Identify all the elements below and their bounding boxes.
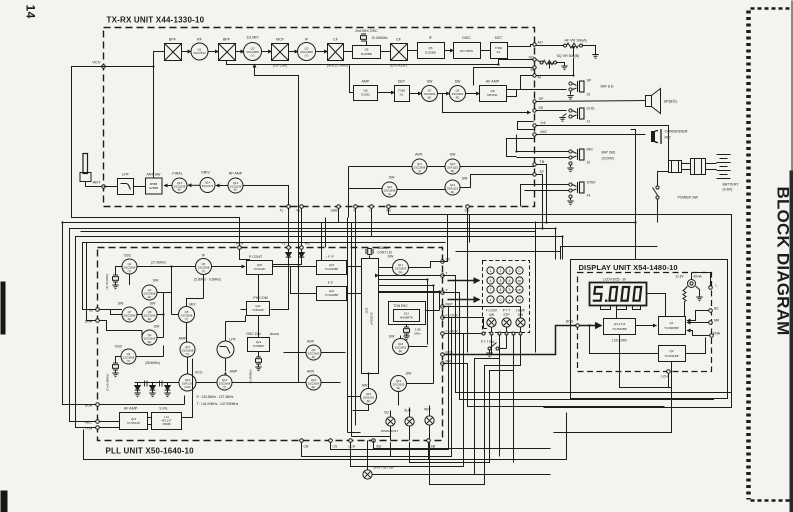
block TON ENC D12 <box>389 302 426 325</box>
svg-text:2SC1971: 2SC1971 <box>202 184 214 188</box>
svg-text:7: 7 <box>490 288 492 292</box>
svg-text:CS: CS <box>333 445 338 449</box>
svg-text:(Y): (Y) <box>223 385 227 389</box>
wire <box>466 93 480 95</box>
svg-text:R : 130.3MHz - 137.3MHz: R : 130.3MHz - 137.3MHz <box>197 395 234 399</box>
jack J3 SP <box>567 79 614 100</box>
svg-text:Q1: Q1 <box>669 321 673 325</box>
wire <box>408 50 418 52</box>
svg-text:SW: SW <box>450 153 456 157</box>
wire <box>481 50 491 52</box>
wire ST right riser <box>536 175 542 229</box>
node LCH disp <box>661 370 670 379</box>
svg-text:9: 9 <box>509 288 511 292</box>
keypad bottom node row <box>482 332 522 335</box>
wire riser x562 <box>562 237 564 260</box>
transistor Q1 OSC <box>122 254 137 275</box>
wire bus extra <box>81 231 536 233</box>
wire SC riser <box>442 215 448 262</box>
wire <box>438 93 450 95</box>
right page edge dark border <box>790 171 793 512</box>
svg-text:8: 8 <box>500 288 502 292</box>
node SB TX-RX bottom <box>466 205 470 209</box>
svg-text:TC9122P: TC9122P <box>254 267 266 271</box>
svg-text:MX58BTN: MX58BTN <box>400 316 413 320</box>
wire LSI buses vertical <box>348 218 391 437</box>
transistor Q2 SW <box>142 279 159 301</box>
wire bus DNA left <box>87 243 96 321</box>
svg-text:F LOCK: F LOCK <box>446 314 459 318</box>
transistor Q11 AVR (mid) <box>412 153 427 175</box>
wire ST row <box>349 175 535 190</box>
block ANT SW <box>146 173 163 195</box>
svg-text:SW: SW <box>118 302 124 306</box>
svg-text:SW: SW <box>150 302 156 306</box>
svg-text:(E): (E) <box>456 95 460 99</box>
wire Q2/LCH bottom <box>554 335 672 433</box>
svg-text:G25BB: G25BB <box>149 186 158 190</box>
svg-text:AO: AO <box>538 41 543 45</box>
svg-text:BU: BU <box>377 445 382 449</box>
svg-text:10.240MHz: 10.240MHz <box>249 369 253 384</box>
wire 9.6 U-loop <box>518 122 534 130</box>
svg-text:J3: J3 <box>587 93 591 97</box>
LCD connector pads <box>601 306 641 319</box>
svg-text:TC4013BP: TC4013BP <box>325 293 339 297</box>
transistor Q17 SW <box>388 255 409 276</box>
node AI <box>533 58 574 80</box>
svg-text:(K): (K) <box>234 188 238 192</box>
crystal X1 <box>105 267 122 290</box>
svg-text:OSC: OSC <box>115 345 123 349</box>
svg-text:SW: SW <box>489 313 494 317</box>
svg-text:STP: STP <box>503 313 509 317</box>
wire riser x635 from mic area <box>631 130 636 260</box>
switch LAMP SW <box>516 309 525 328</box>
svg-text:BC: BC <box>387 209 392 213</box>
svg-text:(E): (E) <box>148 295 152 299</box>
node SP <box>533 97 544 103</box>
wire <box>262 51 272 53</box>
svg-text:[5MHz]: [5MHz] <box>270 332 280 336</box>
svg-text:(38.5MHz): (38.5MHz) <box>145 361 160 365</box>
svg-text:STBY: STBY <box>587 181 597 185</box>
svg-text:TC4011BP: TC4011BP <box>664 354 678 358</box>
wire short risers into PLL top <box>322 218 326 261</box>
filter BPF1 <box>165 38 182 61</box>
transistor Q6 IF <box>194 254 221 282</box>
filter MCF <box>272 38 289 68</box>
varactor diodes <box>134 383 140 397</box>
svg-text:SQ: SQ <box>384 411 389 415</box>
transistor Q13 RF AMP <box>228 172 243 194</box>
wire TB right riser <box>536 165 546 223</box>
wire MIC U-loop <box>507 139 534 157</box>
wires mix/if/vco column <box>137 267 299 383</box>
svg-text:TC4013BP: TC4013BP <box>325 267 339 271</box>
wire <box>381 51 391 53</box>
svg-text:CB: CB <box>304 445 309 449</box>
svg-text:TA7061AP: TA7061AP <box>127 421 140 425</box>
transistor Q2 1st MIX <box>244 36 262 61</box>
lamp SQ <box>381 411 399 434</box>
svg-text:AMP: AMP <box>230 370 238 374</box>
node BCD disp <box>566 320 579 328</box>
block DET <box>491 36 508 59</box>
node BC <box>709 307 720 313</box>
PTT SW <box>481 335 507 357</box>
wires Q1 to nodes <box>687 311 709 321</box>
transistor Q9 SW <box>450 80 466 102</box>
wire node drops TX-RX bottom <box>339 208 468 242</box>
staircase wires PLL to display bottom (right-wrap set) <box>443 276 732 393</box>
transistor Q11 AMP <box>179 337 195 358</box>
jack J4 STBY <box>567 181 596 205</box>
wire TB row <box>349 166 535 168</box>
filter CF2 <box>390 38 408 68</box>
wire STBY stubs <box>521 185 569 207</box>
wire RF AMP drive input from TL <box>243 186 289 205</box>
svg-text:SW: SW <box>362 384 368 388</box>
svg-text:(Y): (Y) <box>202 269 206 273</box>
svg-text:BPF: BPF <box>169 38 177 42</box>
wire bottom edge drops <box>351 442 429 459</box>
transistor Q19 SW <box>391 372 412 392</box>
svg-text:(GR): (GR) <box>184 385 190 389</box>
svg-text:(E): (E) <box>428 95 432 99</box>
svg-text:P T T: P T T <box>503 309 511 313</box>
svg-text:(9.6V): (9.6V) <box>723 188 733 192</box>
svg-text:SP: SP <box>587 79 592 83</box>
svg-text:J4: J4 <box>587 194 591 198</box>
block DET 2 <box>395 80 410 102</box>
svg-text:(E): (E) <box>367 399 371 403</box>
svg-text:DET: DET <box>495 36 503 40</box>
PLL right edge nodes <box>446 258 459 364</box>
svg-text:SW: SW <box>462 177 468 181</box>
wire RX feed down to ANT SW <box>153 67 155 179</box>
node TB <box>533 160 545 166</box>
svg-text:TC4543BP: TC4543BP <box>612 327 627 331</box>
wire top wrap around display <box>389 215 732 408</box>
wire <box>236 51 245 53</box>
wire mix injection riser from VCO <box>255 64 299 383</box>
svg-text:L: L <box>716 284 718 288</box>
wire AF AMP out to AI node <box>507 76 535 90</box>
svg-text:12.6V: 12.6V <box>675 275 684 279</box>
svg-text:SC: SC <box>446 258 451 262</box>
svg-text:REP: REP <box>446 303 454 307</box>
wire bus drop x535 <box>535 222 537 353</box>
svg-text:F LOCK: F LOCK <box>486 309 498 313</box>
crystal 3.58MHz <box>403 325 421 340</box>
wire keypad riser top <box>469 215 471 243</box>
wire <box>182 51 192 53</box>
svg-text:30mA: 30mA <box>693 275 702 279</box>
svg-text:(E): (E) <box>128 317 132 321</box>
svg-text:(T) 46.98MHz: (T) 46.98MHz <box>106 373 110 391</box>
svg-text:SW: SW <box>406 372 412 376</box>
svg-text:BCD: BCD <box>566 320 574 324</box>
svg-text:LPF: LPF <box>229 338 236 342</box>
wire AGC line to AMP <box>227 59 499 93</box>
filter LPF circle <box>217 338 237 359</box>
wires LSI to right edge <box>379 275 441 277</box>
wire varactor line <box>135 382 180 384</box>
left page-edge black mark upper <box>1 282 6 335</box>
2nd MIX OSC block D6 <box>353 29 389 59</box>
node SO <box>529 56 537 62</box>
battery connector plates <box>669 159 706 175</box>
svg-text:D115BE: D115BE <box>361 52 372 56</box>
svg-text:CONDENSER: CONDENSER <box>665 130 688 134</box>
wire VCV into P CONT <box>240 249 250 260</box>
node TON PLL left <box>85 426 120 431</box>
svg-text:AF AMP: AF AMP <box>124 407 138 411</box>
svg-text:DISPLAY UNIT X54-1480-10: DISPLAY UNIT X54-1480-10 <box>579 263 678 272</box>
battery 9.6V <box>706 155 740 192</box>
svg-text:(E): (E) <box>397 386 401 390</box>
wire MIC to condenser mic <box>537 134 646 136</box>
transistor Q3 IF <box>298 38 316 61</box>
svg-text:DNA: DNA <box>713 332 721 336</box>
svg-text:M5152L: M5152L <box>487 93 498 97</box>
svg-text:Q5: Q5 <box>428 46 432 50</box>
svg-text:⋆ F F: ⋆ F F <box>325 255 334 259</box>
wire VCV feed to BPF1 <box>104 52 165 67</box>
svg-text:ST: ST <box>540 170 545 174</box>
wire TB row drop <box>348 167 350 218</box>
svg-text:OSC DIV: OSC DIV <box>246 332 261 336</box>
crystal 10.240MHz <box>249 352 262 384</box>
node TL on PLL top <box>281 241 290 250</box>
wire DET to AO node <box>508 45 535 47</box>
transistor Q8 SW <box>142 302 157 323</box>
svg-text:NO: NO <box>518 280 522 283</box>
transistor AVR Q26 <box>306 370 321 391</box>
node SUB PLL left <box>85 396 185 408</box>
svg-text:AMP: AMP <box>362 80 370 84</box>
svg-text:OPEN/BUSY: OPEN/BUSY <box>381 429 399 433</box>
svg-text:DFY455S: DFY455S <box>460 49 473 53</box>
node TL TX-RX bottom <box>287 205 291 209</box>
wire driver to Q1 <box>636 325 657 327</box>
keypad input arrows <box>448 280 480 282</box>
crystal X2 <box>106 357 122 392</box>
svg-text:REV: REV <box>424 408 431 412</box>
svg-text:(E): (E) <box>148 317 152 321</box>
condenser MIC <box>652 129 688 144</box>
filter BPF2 <box>219 38 236 61</box>
PLL bottom edge nodes <box>304 445 436 449</box>
wires AVR stubs <box>284 353 346 383</box>
transistor Q16 SW (mid) <box>445 153 460 175</box>
svg-text:AMP: AMP <box>179 337 187 341</box>
node SUB TX-RX bottom <box>337 205 341 209</box>
svg-text:OSC: OSC <box>124 254 132 258</box>
svg-text:SP: SP <box>539 97 544 101</box>
svg-text:AF VR 10k(A): AF VR 10k(A) <box>565 39 587 43</box>
svg-text:POWER SW: POWER SW <box>678 196 699 200</box>
svg-text:BI: BI <box>531 68 534 72</box>
svg-text:(E): (E) <box>399 270 403 274</box>
block LPF <box>104 173 134 195</box>
svg-text:AVR: AVR <box>415 153 423 157</box>
resistor + ground at lamp <box>683 286 703 317</box>
LCD module <box>590 278 647 306</box>
svg-text:T : 144.00MHz - 147.995MHz: T : 144.00MHz - 147.995MHz <box>197 402 239 406</box>
wire bus SUB (long) <box>63 223 635 405</box>
svg-text:LPF: LPF <box>122 173 129 177</box>
diode at TL <box>271 249 292 309</box>
svg-text:6: 6 <box>509 279 511 283</box>
wire Q7/Q9 junction to SS <box>443 94 531 113</box>
wire riser x555 <box>555 229 557 260</box>
transistor Q4 OSC <box>115 345 136 365</box>
svg-text:3500B: 3500B <box>162 422 170 426</box>
wire bus MIC (long) <box>70 229 556 422</box>
node L <box>709 284 718 290</box>
svg-text:1st MIX: 1st MIX <box>246 36 259 40</box>
wire lamp top to L node <box>692 273 711 288</box>
staircase wires down-left set <box>331 307 449 450</box>
wire VCV left loop <box>72 67 240 246</box>
svg-text:(27.3MHz): (27.3MHz) <box>151 261 166 265</box>
svg-text:AF AMP: AF AMP <box>486 80 500 84</box>
svg-text:CF: CF <box>396 38 402 42</box>
svg-text:MHz: MHz <box>414 332 421 336</box>
wire BI stub <box>474 68 535 86</box>
left page-edge black mark lower <box>1 491 8 512</box>
svg-text:5: 5 <box>500 279 502 283</box>
svg-text:4: 4 <box>490 279 492 283</box>
wire SB long drop <box>467 243 469 353</box>
wire BCD bold into LCD driver <box>579 325 601 327</box>
svg-text:IMP 2kΩ: IMP 2kΩ <box>602 151 616 155</box>
node B TX-RX bottom <box>354 205 358 209</box>
transistor Q3 SW <box>142 325 160 346</box>
TX-RX unit dashed border <box>104 28 535 207</box>
lamp SUB <box>404 409 414 427</box>
transistor Q7 SW <box>422 80 438 102</box>
svg-text:CHG: CHG <box>587 107 595 111</box>
svg-text:IMP 8 Ω: IMP 8 Ω <box>601 85 614 89</box>
svg-text:PH COM: PH COM <box>253 296 267 300</box>
svg-text:VCV: VCV <box>92 60 101 65</box>
wire LPF to VCO line <box>225 358 227 372</box>
wire <box>208 51 219 53</box>
svg-text:VCO: VCO <box>195 371 203 375</box>
svg-text:(E): (E) <box>312 385 316 389</box>
svg-text:K2: K2 <box>497 50 501 54</box>
wire <box>289 51 299 53</box>
transistor Q10 SW (mid) <box>382 176 397 198</box>
wire bottom left long <box>84 413 567 460</box>
crystal 400kHz <box>366 246 392 259</box>
block P CONT Q20 <box>247 255 273 275</box>
svg-text:SP(8Ω): SP(8Ω) <box>664 99 678 104</box>
svg-text:CF: CF <box>333 38 339 42</box>
svg-text:SQ VR 50k(B): SQ VR 50k(B) <box>557 54 580 58</box>
antenna <box>80 154 105 189</box>
svg-text:(Y): (Y) <box>127 359 131 363</box>
transistor Q15 FINAL <box>172 172 187 194</box>
svg-text:0: 0 <box>500 298 502 302</box>
jack J1 CHG <box>559 107 594 124</box>
svg-text:S.FIL: S.FIL <box>159 407 168 411</box>
svg-text:2: 2 <box>500 269 502 273</box>
svg-text:SB: SB <box>431 445 436 449</box>
node MIC <box>533 130 548 136</box>
wire MIC jack stubs <box>517 135 569 158</box>
block DISC <box>454 36 481 59</box>
wire <box>316 51 328 53</box>
svg-text:(E): (E) <box>451 190 455 194</box>
svg-text:2nd MIX OSC: 2nd MIX OSC <box>355 29 378 33</box>
svg-text:▼: ▼ <box>489 299 492 302</box>
wire SO from DET bottom <box>499 59 535 60</box>
svg-text:SS: SS <box>539 106 544 110</box>
svg-text:(5.3MHz - 9.3MHz): (5.3MHz - 9.3MHz) <box>194 278 221 282</box>
svg-text:(L): (L) <box>388 192 391 196</box>
svg-text:TC5081P: TC5081P <box>252 308 264 312</box>
svg-text:FINAL: FINAL <box>172 172 182 176</box>
svg-text:Q3,4,5,6: Q3,4,5,6 <box>614 322 626 326</box>
svg-text:SO: SO <box>529 56 534 60</box>
svg-text:AI: AI <box>538 76 541 80</box>
right page perforation (torn edge) <box>749 9 793 501</box>
svg-text:ANT: ANT <box>93 180 102 185</box>
svg-text:TON ENC: TON ENC <box>393 304 408 308</box>
svg-text:400kHz: 400kHz <box>377 246 388 250</box>
node RL TX-RX bottom <box>300 205 304 209</box>
pot AF VR 10k(A) <box>537 39 599 59</box>
shift switch lamp <box>363 441 551 480</box>
svg-text:RL: RL <box>297 209 301 213</box>
svg-text:9.6: 9.6 <box>541 121 546 125</box>
wire bus TB left <box>83 243 446 310</box>
svg-text:10.245MHz: 10.245MHz <box>371 36 388 40</box>
svg-text:1: 1 <box>490 269 492 273</box>
svg-text:BPF: BPF <box>223 38 231 42</box>
svg-text:F F: F F <box>328 281 334 285</box>
jack J2 MIC <box>567 148 615 172</box>
wire SP to speaker <box>537 101 646 102</box>
wire <box>164 185 172 187</box>
wire <box>188 184 200 186</box>
svg-text:DET: DET <box>398 80 406 84</box>
node DNA disp <box>710 332 721 338</box>
svg-text:J2: J2 <box>587 161 591 165</box>
svg-text:TB: TB <box>540 160 545 164</box>
node DNA PLL left <box>85 319 142 338</box>
svg-text:SW: SW <box>427 80 433 84</box>
svg-text:PLL UNIT X50-1640-10: PLL UNIT X50-1640-10 <box>106 447 195 456</box>
node BI <box>531 66 537 72</box>
svg-text:D115BE: D115BE <box>425 51 436 55</box>
svg-text:MCF: MCF <box>276 38 285 42</box>
svg-text:RF AMP: RF AMP <box>229 172 243 176</box>
block AF AMP Q13 <box>120 407 148 430</box>
block F F Q24 <box>317 281 347 301</box>
transistor Q10 VCO <box>179 371 203 392</box>
wires P CONT / PH COM / OSC DIV <box>226 275 259 342</box>
wire Q17 <box>379 262 441 268</box>
svg-text:▲: ▲ <box>508 299 511 302</box>
svg-text:BC: BC <box>714 307 719 311</box>
capacitors at VCO <box>145 381 163 387</box>
svg-text:BATTERY: BATTERY <box>723 183 740 187</box>
